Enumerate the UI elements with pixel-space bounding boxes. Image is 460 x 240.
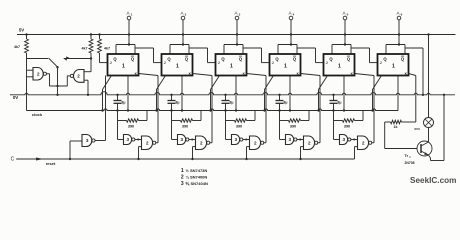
svg-text:3: 3 [181, 137, 184, 142]
label 0V [13, 95, 18, 100]
inverter U3f [340, 135, 351, 145]
wire FF1 clock to clock bus [127, 76, 129, 112]
inverter U3c [178, 135, 189, 145]
svg-text:1: 1 [392, 64, 395, 70]
svg-text:3: 3 [181, 181, 184, 187]
svg-text:clock: clock [32, 112, 43, 117]
wire R3 to J input of FF1 [100, 53, 108, 63]
resistor 1k (R9) [385, 120, 416, 129]
lamp LP1 6V3 [414, 118, 433, 131]
wire set line with arrow [64, 57, 91, 60]
resistor 390 (R4) [118, 111, 148, 129]
wire nand output to K3 [247, 74, 267, 143]
flip-flop U1f (1/2 SN7473N) [378, 54, 409, 76]
svg-text:3: 3 [235, 137, 238, 142]
wire Q̅2 to J3 chain [189, 48, 216, 63]
wire Q̅4 to J5 chain [297, 48, 324, 63]
inverter U3e [286, 135, 297, 145]
svg-text:A: A [288, 10, 291, 15]
svg-text:3: 3 [343, 137, 346, 142]
resistor 390 (R8) [334, 111, 364, 129]
5V supply rail (+5V) [17, 34, 456, 36]
resistor 4k7 (R2) [82, 33, 93, 53]
svg-text:2: 2 [308, 140, 311, 145]
svg-text:Tr: Tr [405, 154, 409, 158]
svg-text:3: 3 [289, 137, 292, 142]
wire inverter to nand stage 5 [351, 138, 358, 140]
svg-text:⅙ SN7404N: ⅙ SN7404N [186, 181, 208, 186]
wire Q̅5 to J6 chain [351, 48, 378, 63]
wire R2 to gate U2b input [84, 53, 92, 72]
wire to inverter U3f [334, 121, 340, 140]
wire FF2 clock to clock bus [181, 76, 183, 112]
wire A4 to Q bus [278, 20, 297, 54]
svg-text:8μ: 8μ [122, 101, 126, 105]
label 5V [19, 28, 24, 33]
wire inverter to nand stage 2 [189, 138, 196, 140]
legend line 3 [181, 181, 208, 187]
svg-text:0V: 0V [13, 95, 18, 100]
nand gate U2b [70, 70, 84, 83]
wire C terminal to inverter U3a [16, 141, 82, 160]
transistor Tr1 2N708 [405, 141, 433, 165]
svg-text:1: 1 [181, 168, 184, 174]
wire FF3 clock to clock bus [235, 76, 237, 112]
wire A5 to Q bus [332, 20, 351, 54]
wire switch pole to 0V [56, 67, 58, 96]
label A1 [126, 10, 132, 16]
label A3 [234, 10, 240, 16]
flip-flop U1a (1/2 SN7473N) [108, 54, 139, 76]
svg-text:¼ SN7400N: ¼ SN7400N [186, 175, 208, 180]
wire FF5 clock to clock bus [343, 76, 345, 112]
svg-text:8μ: 8μ [230, 101, 234, 105]
wire reset to nand stage 5 [355, 147, 358, 159]
svg-text:3: 3 [127, 137, 130, 142]
svg-text:2N708: 2N708 [405, 161, 415, 165]
label A2 [180, 10, 186, 16]
label A6 [396, 10, 402, 16]
wire nand output to K5 [355, 74, 375, 143]
wire 1k to base [385, 122, 417, 149]
wire nand output to K1 [139, 74, 159, 143]
wire FF5 pin diagonal [317, 76, 327, 112]
terminal A6 [397, 16, 401, 20]
wire FF6 clock to clock bus [397, 76, 399, 111]
flip-flop U1c (1/2 SN7473N) [216, 54, 247, 76]
capacitor 8u (C1) [114, 94, 126, 112]
svg-text:2: 2 [181, 175, 184, 181]
flip-flop U1b (1/2 SN7473N) [162, 54, 193, 76]
svg-text:J: J [164, 61, 166, 65]
capacitor 8u (C4) [276, 94, 288, 112]
svg-text:J: J [110, 61, 112, 65]
svg-text:1: 1 [338, 64, 341, 70]
wire nand output to K4 [301, 74, 321, 143]
wire inverter to nand stage 3 [243, 138, 250, 140]
capacitor 8u (C2) [168, 94, 180, 112]
wire emitter to 0V return [429, 94, 446, 161]
svg-text:A: A [342, 10, 345, 15]
wire 5V to lamp [427, 33, 429, 117]
svg-text:2: 2 [37, 71, 40, 76]
nand gate U2g [358, 136, 372, 150]
wire nand output to K2 [193, 74, 213, 143]
wire A6 to Q bus [386, 20, 405, 54]
wire inverter to nand stage 4 [297, 138, 304, 140]
svg-text:390: 390 [128, 125, 134, 129]
legend line 2 [181, 175, 207, 181]
reset signal arrow [36, 158, 44, 161]
nand gate U2c [142, 136, 156, 150]
label reset [46, 161, 56, 166]
wire inverter to nand stage 1 [135, 138, 142, 140]
wire A2 to Q bus [170, 20, 189, 54]
wire FF4 pin diagonal [263, 76, 273, 112]
svg-text:1: 1 [176, 64, 179, 70]
inverter U3a (reset buffer) [82, 135, 95, 147]
inverter U3d [232, 135, 243, 145]
wire to inverter U3e [280, 121, 286, 140]
wire R1 to gate inputs and clock bus [27, 53, 34, 111]
svg-text:1: 1 [284, 64, 287, 70]
wire gate U2b output [67, 75, 70, 77]
0V rail (ground bus) [10, 92, 455, 95]
wire reset to nand stage 4 [299, 147, 303, 161]
wire A3 to Q bus [224, 20, 243, 54]
svg-text:5V: 5V [19, 28, 24, 33]
wire collector to lamp [428, 128, 430, 143]
svg-text:390: 390 [236, 125, 242, 129]
wire FF4 clock to clock bus [289, 76, 291, 112]
terminal A3 [235, 16, 239, 20]
wire reset to nand stage 3 [245, 147, 249, 161]
resistor 390 (R6) [226, 111, 256, 129]
wire FF3 pin diagonal [209, 76, 219, 112]
svg-text:A: A [234, 10, 237, 15]
svg-text:390: 390 [182, 125, 188, 129]
label clock [32, 112, 43, 117]
nand gate U2d [196, 136, 210, 150]
capacitor 8u (C3) [222, 94, 234, 112]
flip-flop U1e (1/2 SN7473N) [324, 54, 355, 76]
wire to inverter U3c [172, 121, 178, 140]
svg-text:4k7: 4k7 [14, 45, 20, 49]
svg-text:2: 2 [254, 140, 257, 145]
svg-text:J: J [326, 61, 328, 65]
svg-text:390: 390 [290, 125, 296, 129]
label A5 [342, 10, 348, 16]
clock bus wire [27, 109, 399, 111]
svg-text:8μ: 8μ [284, 101, 288, 105]
wire K6 to 1k resistor [409, 74, 416, 123]
wire FF6 pin diagonal [371, 76, 381, 112]
wire Q̅3 to J4 chain [243, 48, 270, 63]
resistor 390 (R5) [172, 111, 202, 129]
svg-text:8μ: 8μ [338, 101, 342, 105]
wire reset to nand stage 2 [191, 147, 195, 161]
terminal A1 [127, 16, 131, 20]
capacitor 8u (C5) [330, 94, 342, 112]
svg-text:1: 1 [122, 64, 125, 70]
wire Q̅6 down to 0V [405, 48, 424, 96]
wire to inverter U3b [118, 121, 124, 140]
svg-text:reset: reset [46, 161, 56, 166]
svg-text:SeekIC.com: SeekIC.com [410, 176, 456, 185]
svg-text:3: 3 [86, 138, 89, 143]
inverter U3b [124, 135, 135, 145]
svg-text:2: 2 [362, 140, 365, 145]
svg-text:390: 390 [344, 125, 350, 129]
switch S1 [49, 58, 59, 68]
wire gate U2a output cross-coupling [46, 74, 67, 86]
svg-text:4k7: 4k7 [104, 47, 110, 51]
wire FF1 pin diagonal [101, 76, 111, 112]
terminal C [11, 157, 15, 163]
wire gate U2b lower input to 0V [84, 80, 89, 96]
svg-text:½ SN7473N: ½ SN7473N [186, 168, 208, 173]
terminal A2 [181, 16, 185, 20]
svg-text:A: A [180, 10, 183, 15]
wire reset to nand stage 1 [137, 147, 141, 161]
svg-text:4k7: 4k7 [82, 47, 88, 51]
svg-text:6V3: 6V3 [414, 127, 420, 131]
svg-text:2: 2 [77, 74, 80, 79]
svg-text:2: 2 [200, 140, 203, 145]
watermark SeekIC.com [410, 176, 456, 185]
svg-text:8μ: 8μ [176, 101, 180, 105]
resistor 4k7 (R3) [98, 33, 110, 53]
svg-text:C: C [11, 157, 15, 163]
reset bus wire [16, 158, 354, 160]
svg-text:J: J [218, 61, 220, 65]
wire to inverter U3d [226, 121, 232, 140]
svg-text:A: A [126, 10, 129, 15]
resistor 390 (R7) [280, 111, 310, 129]
svg-text:J: J [380, 61, 382, 65]
terminal A5 [343, 16, 347, 20]
svg-text:1: 1 [230, 64, 233, 70]
wire Q̅1 to J2 chain [135, 48, 162, 63]
svg-text:1k: 1k [394, 125, 398, 129]
label A4 [288, 10, 294, 16]
wire inverter U3a output [95, 76, 105, 141]
nand gate U2f [304, 136, 318, 150]
terminal A4 [289, 16, 293, 20]
wire A1 to Q bus [116, 20, 135, 54]
wire FF2 pin diagonal [155, 76, 165, 112]
nand gate U2a [33, 68, 46, 81]
nand gate U2e [250, 136, 264, 150]
svg-text:A: A [396, 10, 399, 15]
wire switch contact [27, 58, 49, 60]
svg-text:J: J [272, 61, 274, 65]
svg-text:2: 2 [146, 140, 149, 145]
flip-flop U1d (1/2 SN7473N) [270, 54, 301, 76]
resistor 4k7 (R1) [14, 33, 28, 53]
legend line 1 [181, 168, 207, 174]
